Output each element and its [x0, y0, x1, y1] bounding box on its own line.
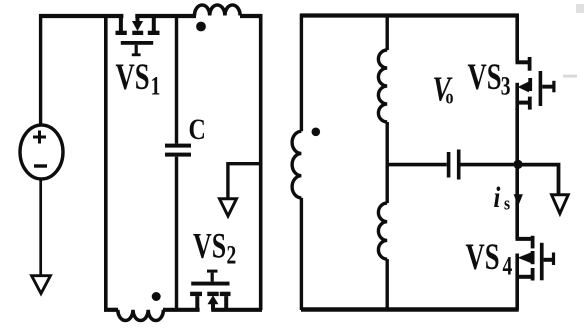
- transistor VS3: [516, 14, 556, 111]
- capacitor C: [165, 16, 191, 310]
- label is: [494, 181, 511, 214]
- ground arrow mid: [220, 199, 237, 216]
- node dot L2 polarity: [152, 292, 161, 301]
- transistor VS1: [116, 15, 160, 56]
- transformer secondary upper winding: [378, 14, 387, 166]
- faint artifact corner: [576, 4, 584, 13]
- svg-text:3: 3: [501, 72, 511, 100]
- label VS3: [468, 56, 511, 100]
- wire right branch: [259, 14, 263, 310]
- wire left branch: [104, 14, 108, 310]
- wire top rail middle segment: [135, 14, 196, 18]
- svg-text:VS: VS: [466, 236, 500, 277]
- svg-text:C: C: [189, 112, 206, 145]
- svg-text:2: 2: [227, 241, 237, 269]
- svg-text:VS: VS: [193, 225, 226, 265]
- wire bottom rail right segment: [211, 308, 262, 312]
- wire ground branch right: [518, 165, 559, 195]
- wire source top lead: [39, 15, 42, 126]
- transformer secondary lower winding: [378, 164, 387, 310]
- node dot primary polarity: [312, 128, 321, 137]
- svg-text:o: o: [446, 86, 454, 108]
- svg-text:VS: VS: [468, 56, 502, 97]
- wire top rail right circuit: [301, 13, 519, 17]
- wire VS3 source to junction: [515, 108, 519, 164]
- wire center tap: [387, 163, 447, 167]
- DC source VS: [20, 125, 63, 179]
- transformer primary winding: [292, 14, 301, 311]
- capacitor series: [447, 150, 461, 180]
- current arrow is: [514, 194, 523, 206]
- inductor L1 top: [195, 5, 241, 16]
- node junction dot: [513, 160, 522, 169]
- ground arrow source: [32, 276, 51, 294]
- svg-text:s: s: [504, 193, 510, 214]
- svg-text:VS: VS: [116, 56, 150, 97]
- ground arrow right: [552, 195, 569, 214]
- wire cap to junction: [461, 163, 519, 167]
- label Vo: [433, 69, 454, 108]
- wire bottom rail middle segment: [163, 308, 200, 312]
- transistor VS4: [516, 236, 556, 310]
- node dot L1 polarity: [196, 22, 206, 32]
- wire top rail left segment: [39, 14, 123, 18]
- label VS4: [466, 236, 513, 280]
- faint artifact dash: [563, 75, 577, 78]
- wire source bottom lead: [39, 179, 42, 276]
- transistor VS2: [190, 270, 230, 311]
- inductor L2 bottom: [118, 310, 164, 321]
- label VS1: [116, 56, 161, 100]
- wire top rail right segment: [240, 14, 262, 18]
- svg-text:i: i: [494, 181, 501, 214]
- label VS2: [193, 225, 236, 269]
- svg-text:4: 4: [503, 252, 513, 280]
- wire bottom rail right circuit: [301, 307, 519, 311]
- wire output stub: [228, 164, 261, 199]
- svg-text:1: 1: [151, 72, 161, 100]
- wire junction to VS4: [515, 164, 519, 239]
- wire bottom rail left segment: [104, 308, 118, 312]
